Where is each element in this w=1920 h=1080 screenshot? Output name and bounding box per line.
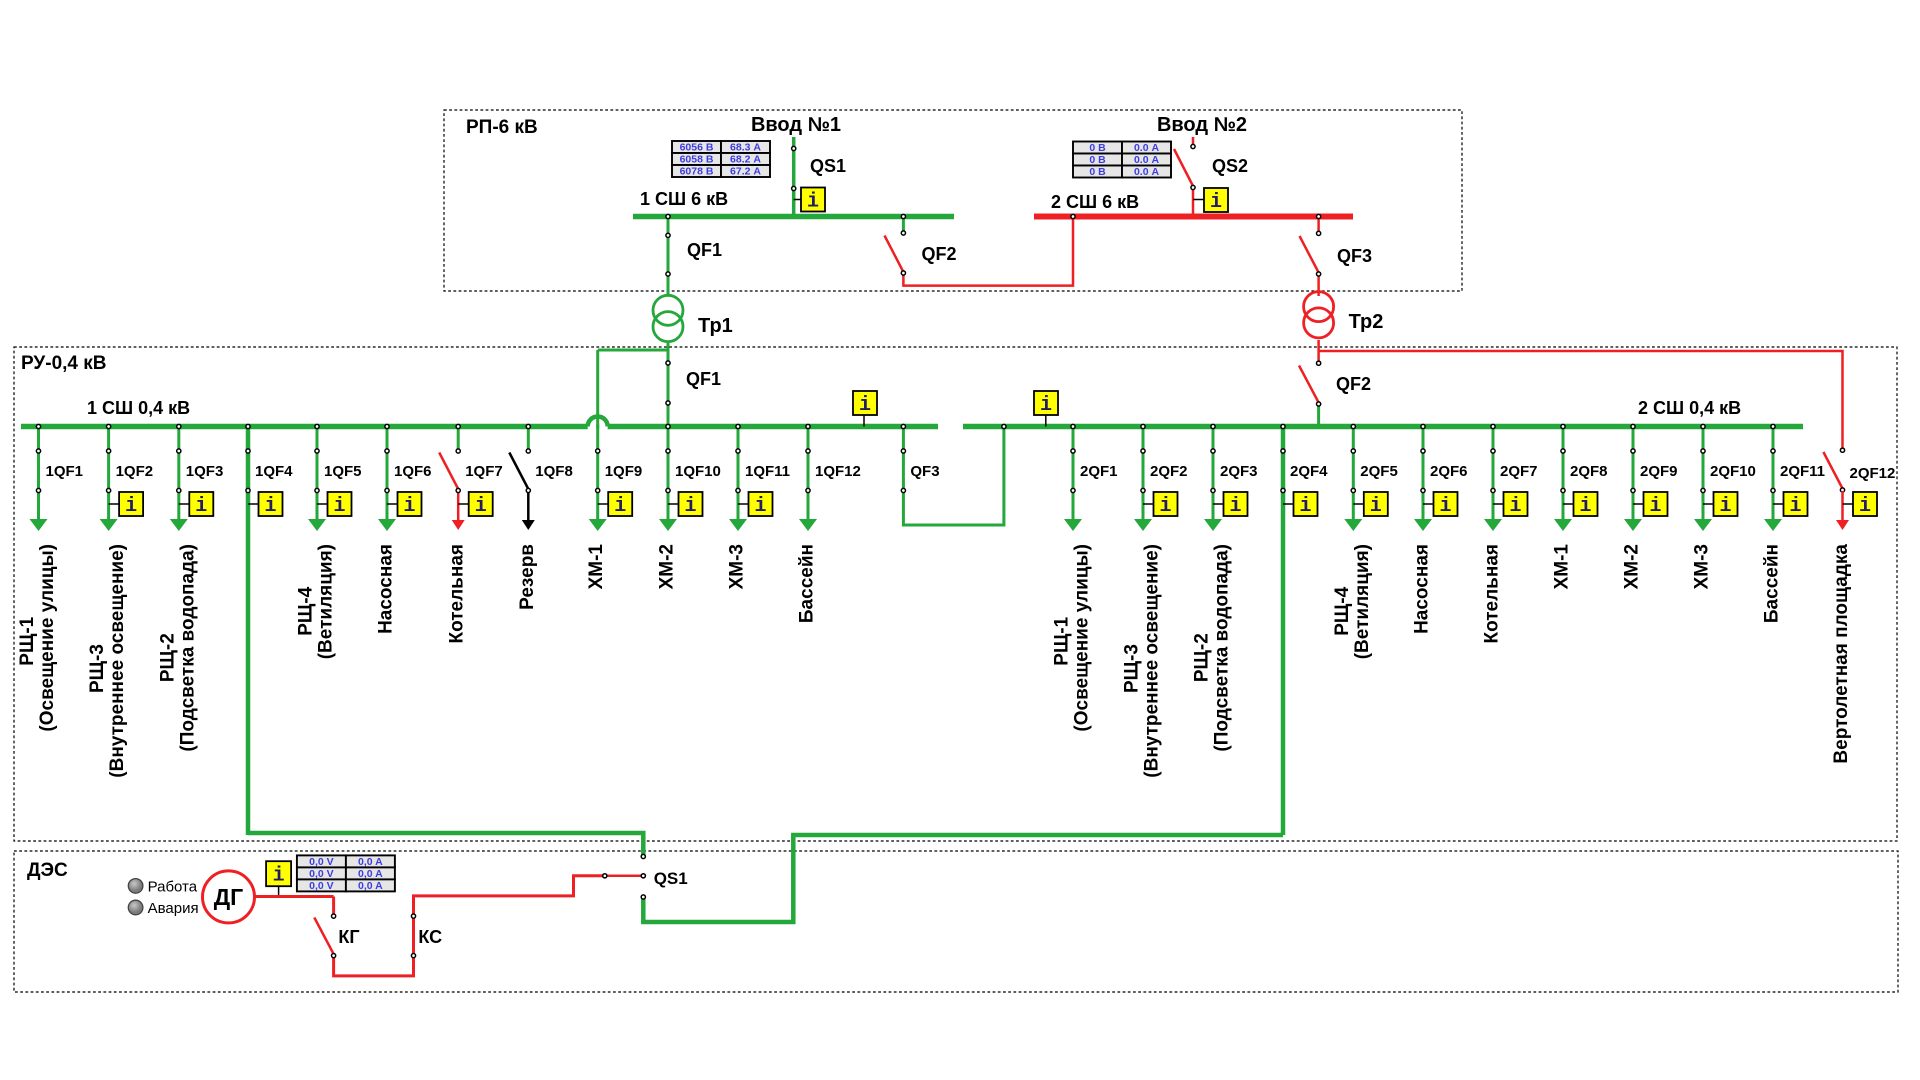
svg-text:1QF9: 1QF9 bbox=[605, 463, 643, 480]
svg-text:2QF10: 2QF10 bbox=[1710, 463, 1756, 480]
svg-text:2QF11: 2QF11 bbox=[1780, 463, 1825, 480]
svg-text:QS1: QS1 bbox=[810, 156, 846, 176]
svg-text:КГ: КГ bbox=[338, 927, 359, 947]
svg-text:РП-6 кВ: РП-6 кВ bbox=[466, 117, 538, 138]
svg-text:0.0 А: 0.0 А bbox=[1134, 166, 1160, 178]
svg-text:Вертолетная площадка: Вертолетная площадка bbox=[1831, 544, 1852, 764]
svg-text:Котельная: Котельная bbox=[447, 544, 468, 643]
svg-text:i: i bbox=[684, 495, 696, 518]
svg-text:i: i bbox=[475, 495, 487, 518]
svg-text:2QF7: 2QF7 bbox=[1500, 463, 1538, 480]
svg-text:i: i bbox=[1719, 495, 1731, 518]
svg-text:1QF8: 1QF8 bbox=[535, 463, 573, 480]
svg-text:6056 В: 6056 В bbox=[680, 142, 714, 154]
svg-text:1QF6: 1QF6 bbox=[394, 463, 432, 480]
svg-text:i: i bbox=[1299, 495, 1311, 518]
svg-text:68.2 А: 68.2 А bbox=[730, 154, 761, 166]
svg-text:QF2: QF2 bbox=[922, 244, 957, 264]
svg-text:Котельная: Котельная bbox=[1482, 544, 1503, 643]
svg-text:(Ветиляция): (Ветиляция) bbox=[1352, 544, 1373, 659]
svg-text:i: i bbox=[754, 495, 766, 518]
svg-text:1QF10: 1QF10 bbox=[675, 463, 721, 480]
svg-text:(Освещение улицы): (Освещение улицы) bbox=[37, 544, 58, 732]
svg-text:Ввод №1: Ввод №1 bbox=[751, 114, 841, 136]
svg-text:(Внутреннее освещение): (Внутреннее освещение) bbox=[107, 544, 128, 778]
svg-text:(Внутреннее освещение): (Внутреннее освещение) bbox=[1142, 544, 1163, 778]
svg-text:i: i bbox=[195, 495, 207, 518]
svg-text:2QF4: 2QF4 bbox=[1290, 463, 1328, 480]
svg-text:i: i bbox=[1579, 495, 1591, 518]
svg-text:ХМ-3: ХМ-3 bbox=[1692, 544, 1713, 589]
svg-text:1QF12: 1QF12 bbox=[815, 463, 861, 480]
svg-text:1QF3: 1QF3 bbox=[186, 463, 224, 480]
svg-text:(Ветиляция): (Ветиляция) bbox=[316, 544, 337, 659]
svg-text:i: i bbox=[264, 495, 276, 518]
svg-text:2 СШ 0,4 кВ: 2 СШ 0,4 кВ bbox=[1638, 398, 1741, 418]
svg-text:ХМ-2: ХМ-2 bbox=[1622, 544, 1643, 589]
svg-text:i: i bbox=[1229, 495, 1241, 518]
svg-text:ХМ-1: ХМ-1 bbox=[586, 544, 607, 590]
svg-text:2QF5: 2QF5 bbox=[1360, 463, 1398, 480]
svg-text:(Освещение улицы): (Освещение улицы) bbox=[1072, 544, 1093, 732]
svg-text:РЩ-2: РЩ-2 bbox=[1192, 633, 1213, 682]
svg-text:2QF1: 2QF1 bbox=[1080, 463, 1118, 480]
svg-text:0,0 A: 0,0 A bbox=[358, 880, 383, 892]
svg-text:i: i bbox=[1789, 495, 1801, 518]
svg-text:0 В: 0 В bbox=[1089, 142, 1106, 154]
svg-text:1QF11: 1QF11 bbox=[745, 463, 790, 480]
svg-text:i: i bbox=[1210, 191, 1222, 214]
svg-text:ДЭС: ДЭС bbox=[27, 860, 68, 881]
svg-text:i: i bbox=[403, 495, 415, 518]
svg-text:1QF2: 1QF2 bbox=[116, 463, 154, 480]
svg-text:i: i bbox=[1509, 495, 1521, 518]
svg-text:(Подсветка водопада): (Подсветка водопада) bbox=[177, 544, 198, 752]
svg-text:i: i bbox=[807, 191, 819, 214]
svg-text:QS1: QS1 bbox=[654, 869, 688, 888]
svg-text:6058 В: 6058 В bbox=[680, 154, 714, 166]
svg-text:РЩ-4: РЩ-4 bbox=[296, 586, 317, 635]
svg-text:68.3 А: 68.3 А bbox=[730, 142, 761, 154]
svg-text:РЩ-3: РЩ-3 bbox=[87, 644, 108, 693]
svg-text:Бассейн: Бассейн bbox=[1762, 544, 1783, 623]
svg-text:0,0 A: 0,0 A bbox=[358, 856, 383, 868]
svg-text:1 СШ 0,4 кВ: 1 СШ 0,4 кВ bbox=[87, 398, 190, 418]
svg-text:i: i bbox=[859, 394, 871, 417]
svg-text:i: i bbox=[1040, 394, 1052, 417]
svg-text:i: i bbox=[614, 495, 626, 518]
svg-text:QF1: QF1 bbox=[687, 240, 722, 260]
svg-text:i: i bbox=[1859, 495, 1871, 518]
svg-text:ХМ-2: ХМ-2 bbox=[657, 544, 678, 589]
svg-text:0 В: 0 В bbox=[1089, 166, 1106, 178]
svg-text:2QF6: 2QF6 bbox=[1430, 463, 1468, 480]
svg-text:Работа: Работа bbox=[148, 879, 198, 896]
svg-text:QS2: QS2 bbox=[1212, 156, 1248, 176]
svg-text:Насосная: Насосная bbox=[376, 544, 397, 634]
svg-text:ДГ: ДГ bbox=[214, 884, 243, 910]
svg-text:QF2: QF2 bbox=[1336, 374, 1371, 394]
svg-text:i: i bbox=[1439, 495, 1451, 518]
svg-text:РЩ-1: РЩ-1 bbox=[17, 616, 38, 665]
svg-text:Бассейн: Бассейн bbox=[797, 544, 818, 623]
svg-text:Резерв: Резерв bbox=[517, 544, 538, 610]
svg-text:2QF9: 2QF9 bbox=[1640, 463, 1678, 480]
svg-text:6078 В: 6078 В bbox=[680, 166, 714, 178]
svg-text:Тр2: Тр2 bbox=[1349, 311, 1384, 333]
svg-text:1QF7: 1QF7 bbox=[465, 463, 503, 480]
svg-text:0 В: 0 В bbox=[1089, 154, 1106, 166]
svg-text:0,0 A: 0,0 A bbox=[358, 868, 383, 880]
svg-text:0,0 V: 0,0 V bbox=[309, 868, 334, 880]
svg-text:(Подсветка водопада): (Подсветка водопада) bbox=[1212, 544, 1233, 752]
svg-text:0,0 V: 0,0 V bbox=[309, 856, 334, 868]
svg-text:Насосная: Насосная bbox=[1412, 544, 1433, 634]
svg-text:0.0 А: 0.0 А bbox=[1134, 154, 1160, 166]
svg-text:QF3: QF3 bbox=[1337, 246, 1372, 266]
svg-text:2 СШ 6 кВ: 2 СШ 6 кВ bbox=[1051, 192, 1139, 212]
svg-text:Ввод №2: Ввод №2 bbox=[1157, 114, 1247, 136]
svg-text:РЩ-2: РЩ-2 bbox=[157, 633, 178, 682]
svg-text:РУ-0,4 кВ: РУ-0,4 кВ bbox=[21, 353, 107, 374]
svg-text:1QF1: 1QF1 bbox=[46, 463, 84, 480]
svg-text:0,0 V: 0,0 V bbox=[309, 880, 334, 892]
svg-text:i: i bbox=[1649, 495, 1661, 518]
svg-text:1 СШ 6 кВ: 1 СШ 6 кВ bbox=[640, 189, 728, 209]
svg-text:2QF3: 2QF3 bbox=[1220, 463, 1258, 480]
svg-text:i: i bbox=[1370, 495, 1382, 518]
svg-text:i: i bbox=[333, 495, 345, 518]
svg-text:РЩ-3: РЩ-3 bbox=[1122, 644, 1143, 693]
svg-text:2QF12: 2QF12 bbox=[1850, 465, 1896, 482]
svg-text:i: i bbox=[1159, 495, 1171, 518]
svg-text:2QF2: 2QF2 bbox=[1150, 463, 1188, 480]
svg-text:КС: КС bbox=[418, 927, 442, 947]
svg-text:Авария: Авария bbox=[148, 900, 199, 917]
svg-text:QF3: QF3 bbox=[910, 463, 939, 480]
svg-text:67.2 А: 67.2 А bbox=[730, 166, 761, 178]
svg-text:Тр1: Тр1 bbox=[698, 315, 733, 337]
svg-text:1QF4: 1QF4 bbox=[255, 463, 293, 480]
svg-text:QF1: QF1 bbox=[686, 369, 721, 389]
svg-text:РЩ-1: РЩ-1 bbox=[1052, 616, 1073, 665]
svg-text:2QF8: 2QF8 bbox=[1570, 463, 1608, 480]
svg-text:РЩ-4: РЩ-4 bbox=[1332, 586, 1353, 635]
svg-text:1QF5: 1QF5 bbox=[324, 463, 362, 480]
svg-text:ХМ-3: ХМ-3 bbox=[727, 544, 748, 589]
svg-text:i: i bbox=[273, 865, 285, 888]
svg-text:0.0 А: 0.0 А bbox=[1134, 142, 1160, 154]
svg-text:ХМ-1: ХМ-1 bbox=[1552, 544, 1573, 590]
svg-text:i: i bbox=[125, 495, 137, 518]
